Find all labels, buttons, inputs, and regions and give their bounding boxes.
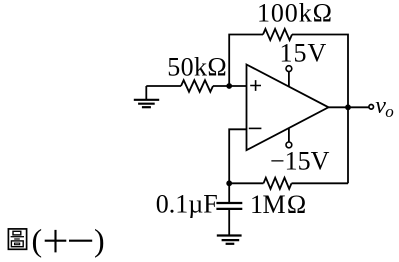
node A junction dot bbox=[226, 83, 232, 89]
wire feedback left vertical bbox=[229, 35, 263, 87]
op-amp minus input marking bbox=[249, 127, 262, 129]
wire feedback top right bbox=[292, 35, 348, 108]
resistor R2 (50kΩ) bbox=[181, 80, 213, 92]
op-amp U1 triangle bbox=[247, 65, 329, 151]
+15V supply pin bbox=[286, 66, 292, 87]
svg-text:15V: 15V bbox=[280, 39, 328, 68]
ground GND2 bbox=[217, 236, 242, 244]
wire output bbox=[329, 106, 369, 108]
wire bottom right bbox=[292, 182, 349, 184]
node B junction dot bbox=[226, 180, 232, 186]
output node junction dot bbox=[345, 104, 351, 110]
svg-text:(: ( bbox=[32, 222, 43, 258]
svg-text:100kΩ: 100kΩ bbox=[257, 0, 333, 27]
op-amp plus input marking bbox=[250, 80, 261, 91]
label vo bbox=[375, 93, 394, 121]
svg-text:50kΩ: 50kΩ bbox=[167, 53, 227, 82]
wire ground to R2 bbox=[146, 85, 181, 87]
-15V supply pin bbox=[286, 128, 292, 148]
wire right vertical lower bbox=[347, 107, 349, 183]
glyph 十 bbox=[45, 230, 67, 253]
capacitor C1 bbox=[216, 183, 242, 235]
svg-text:1: 1 bbox=[250, 190, 263, 219]
resistor R3 (1MΩ) bbox=[264, 178, 292, 189]
caption 圖(十一) bbox=[8, 222, 104, 258]
svg-text:−15V: −15V bbox=[270, 146, 330, 175]
resistor R1 (100kΩ) bbox=[263, 29, 292, 40]
glyph 一 bbox=[69, 240, 92, 242]
output terminal circle bbox=[369, 105, 374, 110]
svg-text:0.1µF: 0.1µF bbox=[156, 190, 218, 219]
ground GND1 bbox=[134, 86, 159, 107]
svg-text:o: o bbox=[385, 102, 394, 121]
wire R2 to noninverting input bbox=[213, 85, 247, 87]
svg-text:MΩ: MΩ bbox=[263, 190, 308, 219]
wire inverting input bbox=[229, 129, 246, 183]
wire bottom left bbox=[229, 182, 263, 184]
svg-text:): ) bbox=[94, 222, 105, 258]
glyph 圖 bbox=[8, 229, 26, 249]
